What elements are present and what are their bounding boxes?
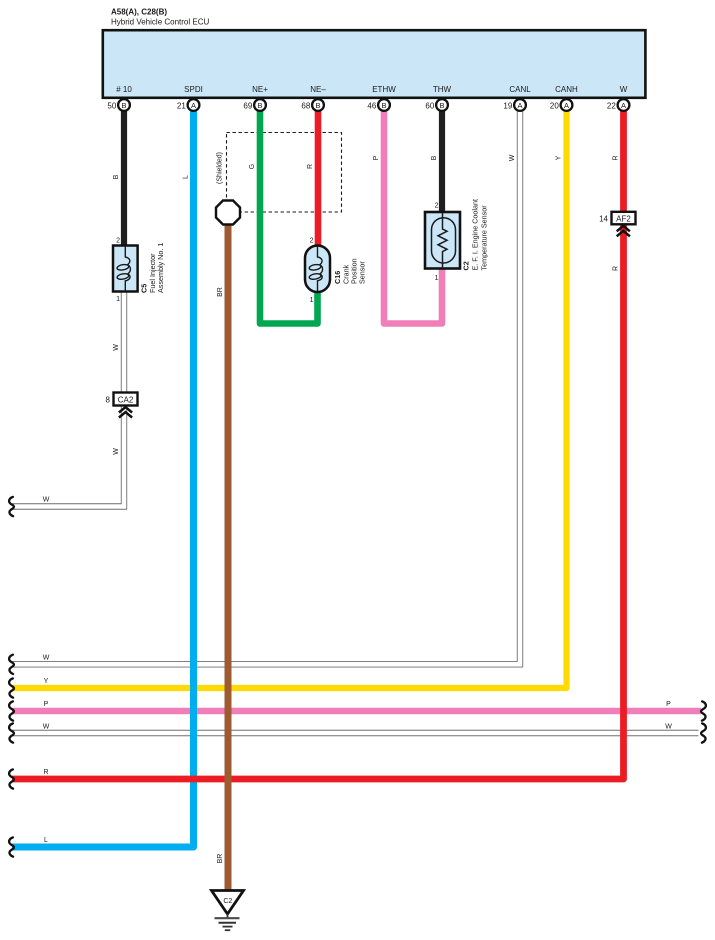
wire CANH yellow: pin 20 down, left to page edge xyxy=(12,111,567,688)
svg-text:B: B xyxy=(315,101,320,110)
wire SPDI blue: pin 21 down, left to page edge xyxy=(12,111,194,847)
svg-text:69: 69 xyxy=(243,101,252,110)
break symbol blue bus xyxy=(9,837,14,856)
break symbol white bus right xyxy=(701,723,706,742)
svg-text:W: W xyxy=(620,85,628,94)
wire ETHW pink: pin 46 down, to C2 pin 1 xyxy=(384,111,442,324)
svg-text:A: A xyxy=(564,101,569,110)
svg-text:THW: THW xyxy=(433,85,452,94)
connector CA2 chevron xyxy=(119,407,132,417)
break symbol white bus left xyxy=(9,723,14,742)
svg-text:CANH: CANH xyxy=(555,85,578,94)
node CANL: pin 19 (A) xyxy=(503,85,531,111)
ECU connector box A58(A), C28(B) Hybrid Vehicle Control ECU xyxy=(103,30,646,98)
ground C2 symbol xyxy=(212,891,244,931)
node THW: pin 60 (B) xyxy=(425,85,451,111)
svg-text:(Shielded): (Shielded) xyxy=(217,152,224,184)
shield octagon node xyxy=(216,201,240,225)
svg-text:B: B xyxy=(257,101,262,110)
svg-text:W: W xyxy=(43,724,50,731)
wire #10 black: pin 50 down to C5 pin 2 xyxy=(121,111,127,246)
svg-text:BR: BR xyxy=(217,854,224,864)
svg-text:2: 2 xyxy=(435,203,439,210)
wire white bus W (full width) xyxy=(12,730,699,736)
svg-text:1: 1 xyxy=(116,296,120,303)
svg-text:C2: C2 xyxy=(462,261,471,270)
node W: pin 22 (A) xyxy=(607,85,630,111)
svg-text:# 10: # 10 xyxy=(116,85,132,94)
wire white from C5 pin 1 through CA2 to page edge xyxy=(12,292,124,507)
svg-text:G: G xyxy=(249,164,256,169)
svg-text:ETHW: ETHW xyxy=(372,85,396,94)
svg-text:B: B xyxy=(439,101,444,110)
engine coolant temperature sensor C2 body xyxy=(425,212,460,269)
svg-text:C2: C2 xyxy=(223,898,232,905)
svg-text:P: P xyxy=(44,701,49,708)
svg-text:2: 2 xyxy=(310,238,314,245)
svg-text:AF2: AF2 xyxy=(616,214,631,223)
shield dashed boundary around NE+/NE- wires xyxy=(227,133,342,213)
break symbol red bus xyxy=(9,769,14,788)
node #10: pin 50 (B) xyxy=(107,85,132,111)
svg-text:68: 68 xyxy=(301,101,310,110)
node CANH: pin 20 (A) xyxy=(550,85,578,111)
svg-text:E. F. I. Engine Coolant: E. F. I. Engine Coolant xyxy=(471,199,480,271)
connector CA2 box xyxy=(114,393,138,406)
svg-text:14: 14 xyxy=(599,214,608,223)
svg-text:2: 2 xyxy=(116,238,120,245)
svg-text:P: P xyxy=(666,701,671,708)
svg-text:W: W xyxy=(113,448,120,455)
node NE+: pin 69 (B) xyxy=(243,85,268,111)
svg-text:CANL: CANL xyxy=(509,85,531,94)
break symbol pink bus left xyxy=(9,701,14,720)
wire NE+ green: pin 69 down to C16 pin 1 xyxy=(260,111,318,324)
svg-text:19: 19 xyxy=(503,101,512,110)
svg-text:B: B xyxy=(431,155,438,160)
svg-text:NE–: NE– xyxy=(310,85,326,94)
svg-text:Y: Y xyxy=(44,678,49,685)
svg-text:8: 8 xyxy=(106,396,111,405)
wire shield drain brown BR: octagon down to ground C2 xyxy=(225,223,232,893)
svg-text:B: B xyxy=(113,174,120,179)
node ETHW: pin 46 (B) xyxy=(367,85,396,111)
svg-text:R: R xyxy=(307,164,314,169)
crank position sensor C16 coil xyxy=(309,246,323,292)
svg-text:Temperature Sensor: Temperature Sensor xyxy=(480,205,489,271)
break symbol CANL bus xyxy=(9,655,14,674)
node NE-: pin 68 (B) xyxy=(301,85,326,111)
C2 inner pill xyxy=(432,218,456,263)
svg-text:P: P xyxy=(373,155,380,160)
C2 thermistor zigzag xyxy=(438,213,447,269)
svg-text:NE+: NE+ xyxy=(252,85,268,94)
svg-text:B: B xyxy=(121,101,126,110)
svg-text:R: R xyxy=(43,769,48,776)
break symbol CANH bus xyxy=(9,678,14,697)
svg-text:21: 21 xyxy=(177,101,186,110)
svg-text:R: R xyxy=(612,155,619,160)
break symbol pink bus right xyxy=(701,701,706,720)
svg-text:W: W xyxy=(43,497,50,504)
svg-text:R: R xyxy=(612,266,619,271)
break symbol injector return bus xyxy=(9,497,14,516)
svg-text:W: W xyxy=(665,724,672,731)
svg-text:Assembly No. 1: Assembly No. 1 xyxy=(156,243,165,293)
svg-text:B: B xyxy=(381,101,386,110)
svg-text:W: W xyxy=(509,154,516,161)
ECU header label xyxy=(111,8,209,27)
svg-text:46: 46 xyxy=(367,101,376,110)
svg-text:W: W xyxy=(113,344,120,351)
svg-text:W: W xyxy=(43,655,50,662)
svg-text:A: A xyxy=(621,101,626,110)
connector AF2 chevron xyxy=(617,226,630,236)
svg-text:1: 1 xyxy=(435,275,439,282)
connector AF2 box xyxy=(612,212,636,225)
svg-text:Hybrid Vehicle Control ECU: Hybrid Vehicle Control ECU xyxy=(111,18,209,27)
node SPDI: pin 21 (A) xyxy=(177,85,203,111)
svg-text:L: L xyxy=(44,837,48,844)
svg-text:22: 22 xyxy=(607,101,616,110)
svg-text:Y: Y xyxy=(555,155,562,160)
svg-text:60: 60 xyxy=(425,101,434,110)
svg-text:Sensor: Sensor xyxy=(358,261,367,284)
fuel injector C5 body xyxy=(113,246,138,292)
wire THW black: pin 60 down to C2 pin 2 xyxy=(439,111,445,213)
svg-text:BR: BR xyxy=(217,287,224,297)
svg-text:A58(A), C28(B): A58(A), C28(B) xyxy=(111,8,167,17)
svg-text:50: 50 xyxy=(107,101,116,110)
svg-text:CA2: CA2 xyxy=(118,396,134,405)
wire pink bus P (full width) xyxy=(12,708,701,714)
svg-text:L: L xyxy=(182,175,189,179)
wire NE- red: pin 68 down to C16 pin 2 xyxy=(315,111,322,246)
wire CANL white: pin 19 down, left to page edge xyxy=(12,111,520,664)
svg-text:SPDI: SPDI xyxy=(184,85,203,94)
svg-text:20: 20 xyxy=(550,101,559,110)
crank position sensor C16 body xyxy=(305,246,330,293)
wire W red: pin 22 down through AF2 to page edge xyxy=(12,111,624,779)
svg-text:A: A xyxy=(191,101,196,110)
fuel injector C5 coil xyxy=(117,246,131,292)
svg-text:A: A xyxy=(517,101,522,110)
svg-text:1: 1 xyxy=(310,297,314,304)
